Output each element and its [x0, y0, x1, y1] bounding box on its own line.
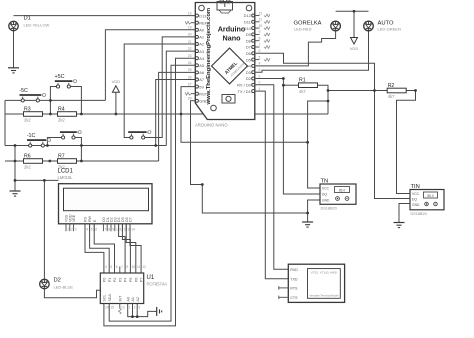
svg-text:13: 13: [188, 11, 192, 15]
svg-text:3: 3: [259, 68, 261, 72]
wire TX/D1 to terminal TXD: [256, 91, 289, 279]
button SW3: [60, 131, 81, 139]
svg-text:TXD: TXD: [290, 278, 298, 282]
svg-text:P6: P6: [134, 278, 138, 282]
svg-text:14: 14: [131, 228, 135, 232]
wire R1 left lead: [283, 84, 298, 86]
svg-text:85.0: 85.0: [427, 194, 433, 198]
svg-text:D5: D5: [246, 57, 251, 62]
svg-text:P4: P4: [124, 278, 128, 282]
resistor R4 2k2: [58, 106, 77, 122]
wire R2 row segment: [328, 90, 387, 92]
svg-text:20: 20: [188, 33, 192, 37]
svg-text:21: 21: [188, 40, 192, 44]
wire left ground rail: [4, 100, 6, 145]
svg-text:A2: A2: [136, 297, 140, 301]
svg-text:D1: D1: [24, 16, 31, 22]
svg-text:6: 6: [116, 265, 118, 269]
svg-text:TX / D1: TX / D1: [238, 89, 251, 94]
svg-text:8: 8: [108, 228, 110, 232]
LCD LCD1 LM016L: [58, 169, 153, 232]
svg-text:LED-YELLOW: LED-YELLOW: [24, 23, 50, 28]
svg-text:14: 14: [105, 306, 109, 310]
wire VDD tap: [353, 11, 355, 37]
svg-text:SCL: SCL: [103, 295, 107, 302]
wire junction dots: [14, 10, 417, 318]
svg-text:3: 3: [75, 228, 77, 232]
wire button row -5C: [5, 99, 105, 101]
svg-text:15: 15: [110, 306, 114, 310]
svg-text:12: 12: [259, 11, 263, 15]
virtual terminal: [279, 264, 345, 302]
svg-text:A6: A6: [199, 70, 204, 75]
IC U1 PCF8574A: [100, 265, 167, 314]
svg-text:D7: D7: [129, 217, 133, 222]
svg-text:1: 1: [259, 87, 261, 91]
svg-text:85.0: 85.0: [339, 188, 345, 192]
svg-text:9: 9: [259, 30, 261, 34]
svg-text:A2: A2: [199, 42, 204, 47]
svg-text:P3: P3: [118, 278, 122, 282]
svg-text:4: 4: [86, 228, 88, 232]
button -1C: [27, 133, 51, 147]
svg-text:A7: A7: [199, 77, 204, 82]
wire D6 to TIN DQ: [256, 53, 410, 198]
svg-text:PCF8574A: PCF8574A: [147, 282, 168, 287]
svg-text:A0: A0: [126, 297, 130, 301]
ground (U1 address pins): [157, 307, 162, 316]
svg-text:VDD: VDD: [112, 79, 121, 84]
wire U1 A0 A1 A2 to ground: [128, 304, 157, 317]
svg-text:VDD: VDD: [350, 46, 359, 51]
svg-text:RTS: RTS: [290, 287, 298, 291]
svg-text:VEE: VEE: [72, 214, 76, 222]
svg-text:-5C: -5C: [19, 88, 28, 94]
ground (TIN): [394, 223, 405, 228]
svg-text:LM016L: LM016L: [58, 175, 74, 180]
sensor TN DS18B20: [320, 179, 356, 211]
label ARDUINO NANO: [195, 123, 228, 128]
svg-text:A4: A4: [199, 56, 205, 61]
svg-text:D4: D4: [246, 64, 252, 69]
ground (D1): [8, 68, 19, 73]
wire A5 to U1 SDA: [109, 65, 195, 321]
svg-text:Arduino: Arduino: [218, 25, 246, 34]
svg-text:R2: R2: [388, 83, 395, 89]
svg-text:D2: D2: [246, 76, 251, 81]
svg-text:GND: GND: [199, 99, 208, 104]
wire A6 to R6/R7 row: [159, 72, 196, 161]
svg-text:4k7: 4k7: [299, 89, 306, 94]
svg-text:R4: R4: [58, 106, 65, 112]
svg-text:D11: D11: [244, 20, 251, 25]
wire A1 to button SW4: [143, 37, 195, 138]
svg-text:A1: A1: [131, 297, 135, 301]
wire A7 to -1C row: [156, 80, 196, 146]
wire LCD RW to U1 P1: [90, 224, 110, 273]
wire LCD D7 to U1 P7: [130, 224, 141, 273]
svg-text:2k2: 2k2: [58, 118, 65, 123]
svg-text:RST: RST: [199, 91, 207, 96]
sensor TIN DS18B20: [410, 184, 444, 216]
svg-text:R7: R7: [58, 153, 65, 159]
svg-text:0: 0: [259, 81, 261, 85]
svg-text:D10: D10: [244, 26, 252, 31]
wire AUTO to D3: [256, 31, 369, 72]
svg-text:RS: RS: [84, 216, 88, 222]
svg-text:DQ: DQ: [412, 198, 417, 202]
wire -1C row: [5, 145, 166, 147]
svg-text:P1: P1: [108, 278, 112, 282]
svg-text:R6: R6: [24, 153, 31, 159]
svg-text:12: 12: [142, 265, 146, 269]
svg-text:25: 25: [188, 68, 192, 72]
wire rail to ground: [14, 146, 16, 192]
svg-text:4: 4: [105, 265, 107, 269]
wire VDD symbol stem: [115, 92, 117, 114]
wire VDD to TN VCC: [308, 101, 328, 188]
svg-text:VCC: VCC: [322, 187, 330, 191]
svg-text:D12: D12: [244, 13, 251, 18]
wire R2 right lead: [406, 90, 416, 92]
wire GORELKA to D4: [256, 31, 336, 66]
svg-text:D13: D13: [199, 13, 206, 18]
ground (TN): [302, 222, 313, 227]
svg-text:6: 6: [259, 49, 261, 53]
svg-text:A0: A0: [199, 28, 205, 33]
svg-text:D2: D2: [54, 278, 61, 284]
svg-text:D7: D7: [246, 45, 251, 50]
svg-text:RX / D0: RX / D0: [237, 83, 251, 88]
svg-text:5: 5: [259, 55, 261, 59]
svg-text:4: 4: [259, 62, 261, 66]
svg-text:R1: R1: [299, 78, 306, 84]
svg-text:7: 7: [259, 43, 261, 47]
wire R6/R7 row: [5, 160, 159, 162]
svg-text:23: 23: [188, 54, 192, 58]
svg-text:GND: GND: [322, 199, 330, 203]
wire RX/D0 to terminal RXD: [256, 85, 289, 269]
svg-text:24: 24: [188, 61, 192, 65]
svg-text:RXD: RXD: [290, 268, 298, 272]
wire 5V to VDD rail and TN VCC: [181, 87, 308, 143]
wire LCD D6 to U1 P6: [126, 224, 136, 273]
LED D1: [9, 16, 50, 31]
wire +5C left leg: [50, 87, 58, 115]
svg-text:GND: GND: [412, 203, 420, 207]
resistor R6 2k2: [24, 153, 43, 169]
svg-text:A1: A1: [199, 35, 204, 40]
wire TIN GND: [399, 204, 410, 223]
svg-text:22: 22: [188, 47, 192, 51]
power VDD (near AUTO): [350, 38, 359, 52]
svg-text:2k2: 2k2: [24, 118, 31, 123]
svg-text:LCD1: LCD1: [58, 169, 74, 175]
svg-text:11: 11: [259, 18, 263, 22]
resistor R2 4k7: [387, 83, 406, 99]
svg-text:INT: INT: [118, 295, 122, 302]
resistor R3 2k2: [24, 106, 43, 122]
svg-text:LED-RED: LED-RED: [294, 27, 312, 32]
resistor R1 4k7: [299, 78, 318, 94]
svg-text:2: 2: [71, 228, 73, 232]
svg-text:8: 8: [259, 37, 261, 41]
svg-text:ARDUINO NANO: ARDUINO NANO: [195, 123, 228, 128]
wire A4 to U1 SCL: [104, 58, 195, 326]
svg-text:U1: U1: [147, 275, 155, 281]
wire D2 pin to R1 / TN DQ: [256, 79, 320, 195]
svg-text:1: 1: [129, 306, 131, 310]
power VDD (left): [112, 79, 121, 92]
wire net D13 / D1 anode rail: [14, 15, 196, 17]
svg-text:CTS: CTS: [290, 296, 298, 300]
wire A2 to button SW4 left: [124, 44, 195, 138]
svg-text:3: 3: [138, 306, 140, 310]
wire SW3 right leg: [74, 138, 82, 162]
svg-text:P0: P0: [103, 278, 107, 282]
svg-text:VT52, VT100, ANSI: VT52, VT100, ANSI: [311, 271, 337, 275]
svg-text:REF: REF: [199, 20, 207, 25]
wire +5C right leg: [69, 87, 82, 115]
LED AUTO: [364, 21, 401, 32]
svg-text:VCC: VCC: [412, 192, 420, 196]
svg-text:26: 26: [188, 75, 192, 79]
wire SW3 left leg: [47, 138, 63, 146]
svg-text:RW: RW: [88, 215, 92, 222]
svg-text:5: 5: [91, 228, 93, 232]
svg-text:D8: D8: [246, 38, 251, 43]
wire A0 to button row: [105, 30, 195, 101]
svg-text:10: 10: [259, 24, 263, 28]
wire LCD D5 to U1 P5: [122, 224, 130, 273]
svg-text:DS18B20: DS18B20: [411, 212, 427, 216]
svg-text:A5: A5: [199, 63, 204, 68]
svg-text:2k2: 2k2: [24, 165, 31, 170]
wire U1 A1 stub: [132, 304, 134, 317]
svg-text:9: 9: [112, 228, 114, 232]
svg-text:+5C: +5C: [55, 74, 65, 80]
ground (button rail): [10, 191, 21, 196]
wire TN GND: [308, 200, 320, 222]
svg-text:D6: D6: [246, 51, 251, 56]
svg-text:LED-BLUE: LED-BLUE: [54, 285, 74, 290]
svg-text:D9: D9: [246, 32, 251, 37]
svg-text:DQ: DQ: [322, 193, 327, 197]
svg-text:SDA: SDA: [108, 294, 112, 302]
wire LCD RS to U1 P0: [85, 224, 104, 273]
svg-text:1: 1: [67, 228, 69, 232]
wire A3 to -1C row: [166, 51, 195, 145]
svg-text:A3: A3: [199, 49, 204, 54]
svg-text:LED-GREEN: LED-GREEN: [378, 27, 401, 32]
svg-text:13: 13: [121, 306, 125, 310]
wire GND net to sensors ground: [191, 101, 308, 213]
wire LCD E to U1 P2: [94, 224, 114, 273]
wire LCD D4 to U1 P4: [119, 224, 126, 273]
svg-text:P2: P2: [113, 278, 117, 282]
Arduino Nano board: [195, 0, 255, 120]
svg-text:5: 5: [110, 265, 112, 269]
svg-text:DS18B20: DS18B20: [321, 207, 337, 211]
svg-text:29: 29: [188, 97, 192, 101]
svg-text:Versatile Terminal Model: Versatile Terminal Model: [309, 294, 339, 298]
svg-text:5V: 5V: [199, 84, 204, 89]
svg-text:2: 2: [134, 306, 136, 310]
svg-text:7: 7: [105, 228, 107, 232]
button +5C: [55, 74, 77, 88]
wire U1 A2 stub: [136, 304, 138, 317]
svg-text:10: 10: [132, 265, 136, 269]
svg-text:9: 9: [126, 265, 128, 269]
svg-text:2: 2: [259, 74, 261, 78]
wire LED VDD rail: [336, 10, 369, 12]
svg-text:7: 7: [121, 265, 123, 269]
LED D2: [40, 278, 74, 290]
LED GORELKA: [294, 21, 341, 32]
wire VDD row: [5, 113, 328, 115]
wire R1 right / R2 rail: [318, 85, 329, 114]
svg-text:P7: P7: [140, 278, 144, 282]
svg-text:R3: R3: [24, 106, 31, 112]
wire D2 cathode to U1: [44, 289, 100, 298]
svg-text:19: 19: [188, 26, 192, 30]
wire to D2 anode: [15, 180, 59, 279]
svg-text:-1C: -1C: [27, 133, 36, 139]
svg-text:27: 27: [188, 82, 192, 86]
button SW4: [128, 131, 151, 139]
svg-text:4k7: 4k7: [388, 94, 395, 99]
svg-text:D3: D3: [246, 70, 251, 75]
Arduino left pin row: [185, 11, 208, 103]
resistor R7 2k2: [58, 153, 77, 169]
svg-text:Nano: Nano: [223, 34, 242, 43]
Arduino right pin row: [237, 11, 270, 94]
svg-text:6: 6: [95, 228, 97, 232]
wire D1 cathode: [13, 31, 15, 68]
svg-text:P5: P5: [129, 278, 133, 282]
svg-text:11: 11: [137, 265, 141, 269]
button -5C: [19, 88, 45, 102]
wire R2 to TIN VCC: [397, 91, 416, 194]
